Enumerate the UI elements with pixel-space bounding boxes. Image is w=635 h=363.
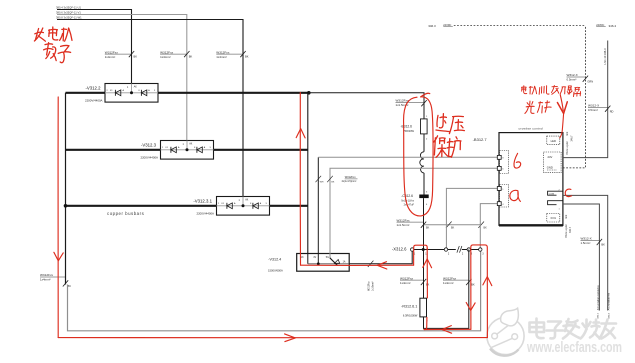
wire red trace bottom [58, 337, 487, 339]
busbar bottom (bus3) [66, 205, 308, 207]
capacitor C312.6 [419, 195, 428, 199]
handwriting baohu (protection) [434, 136, 449, 158]
wire COM tx to resistor monitor right [563, 195, 608, 310]
svg-text:W312-X: W312-X [567, 73, 578, 77]
red arrow up bus drop [296, 129, 305, 138]
node junction terminal 1b [422, 248, 425, 251]
pin group gate/cathode [500, 151, 509, 174]
svg-text:1x4mm²: 1x4mm² [216, 55, 226, 59]
wire red trace V312.4 output [301, 264, 414, 266]
resistor R312.6.1 [420, 298, 427, 317]
resistor B312.6 [421, 119, 428, 134]
svg-text:COM: COM [549, 193, 554, 195]
wire 24VDC dashed bus top [454, 25, 586, 27]
wire gray return left/bottom [68, 251, 481, 330]
svg-text:1x1.5mm²: 1x1.5mm² [397, 223, 410, 227]
red mark b on crowbar [514, 153, 521, 168]
svg-text:fibre optic: fibre optic [564, 224, 568, 238]
svg-text:6.3R/1000W: 6.3R/1000W [403, 314, 418, 318]
connector COM rx [548, 201, 563, 205]
svg-text:copper busbars: copper busbars [107, 211, 145, 216]
svg-text:BK: BK [601, 243, 605, 247]
svg-text:5G: 5G [326, 257, 329, 259]
watermark logo elecfans [487, 308, 524, 355]
svg-text:AK: AK [245, 199, 249, 202]
svg-text:-V312.3: -V312.3 [141, 143, 157, 148]
svg-text:336.4: 336.4 [608, 312, 610, 318]
svg-text:AK: AK [134, 86, 138, 89]
svg-text:W312Fxx: W312Fxx [345, 175, 357, 179]
svg-text:9x(1+1)Vxx: 9x(1+1)Vxx [401, 199, 414, 202]
svg-text:BK: BK [471, 283, 475, 286]
svg-text:W312Fxx: W312Fxx [396, 99, 410, 103]
svg-text:BK: BK [189, 55, 193, 59]
svg-text:BK: BK [134, 55, 138, 59]
wire V312.4 gate 4V up and over to crowbar [317, 157, 319, 253]
svg-text:A/C-crowbar-res: A/C-crowbar-res [607, 292, 610, 310]
wire B312.6 to inductor [423, 134, 425, 152]
busbar DC top (bus1) [66, 92, 309, 94]
svg-text:1500V/600A: 1500V/600A [268, 268, 283, 272]
wire terminal3 up to crowbar pin 4 [480, 204, 497, 250]
diode module V312.3.1 [217, 197, 270, 216]
svg-text:336.1: 336.1 [598, 312, 600, 318]
svg-text:BK: BK [451, 227, 455, 230]
svg-text:-V312.2: -V312.2 [85, 86, 101, 91]
LED indicator [547, 136, 560, 145]
svg-text:RD: RD [610, 109, 614, 113]
red circle around overvoltage branch [404, 93, 434, 216]
wire V312.4 cathode 5G up and over to crowbar [330, 168, 497, 253]
FO1 fibre port [547, 214, 560, 223]
svg-text:-B312.6: -B312.6 [400, 125, 412, 129]
svg-text:-V312.4: -V312.4 [268, 258, 281, 262]
svg-text:2x0.47uF: 2x0.47uF [404, 204, 415, 207]
svg-text:1x4mm²: 1x4mm² [105, 55, 115, 59]
diode module V312.3 [161, 141, 214, 160]
svg-text:2200V/4400A: 2200V/4400A [85, 98, 103, 102]
connector COM tx [548, 191, 563, 195]
wire GND dashed to 24VDC bus [563, 26, 586, 168]
24V/GND supply block [544, 152, 562, 173]
terminal X312.6:1a [411, 248, 414, 251]
node junction bus3 left [64, 204, 68, 208]
node junction bus1 right [307, 91, 311, 95]
handwriting motor-side converter [522, 85, 581, 96]
handwriting guangxian (fibre) [525, 101, 551, 114]
red arrow right bottom [285, 334, 296, 342]
svg-text:2200V/4400A: 2200V/4400A [140, 155, 158, 159]
svg-text:346.7: 346.7 [569, 226, 572, 233]
diode module V312.2 [105, 84, 158, 103]
svg-text:GND: GND [547, 166, 553, 170]
svg-text:WH: WH [320, 181, 324, 183]
svg-text:A/C-crowbar-resistance: A/C-crowbar-resistance [597, 285, 600, 311]
handwriting fadianji (generator) [34, 28, 45, 41]
svg-text:AK: AK [189, 143, 193, 146]
svg-text:2x(1x1.5)mm²: 2x(1x1.5)mm² [342, 180, 357, 183]
red arrow down terminal3 leg [466, 303, 475, 311]
red arrow down left [54, 252, 63, 260]
red mark a on crowbar [510, 190, 521, 201]
svg-text:W312Fxx: W312Fxx [40, 273, 54, 277]
svg-text:-B312.7: -B312.7 [473, 137, 488, 142]
svg-text:BK: BK [426, 227, 430, 230]
wire red trace left side down [57, 97, 59, 338]
wire crowbar trigger return bottom (y=224.7) [424, 224, 481, 226]
red arrow fibre optic [560, 95, 563, 111]
svg-text:W312-X: W312-X [588, 104, 599, 108]
red arrow up right [483, 277, 492, 286]
node phase line labels (generator rotor nets) [56, 6, 82, 20]
svg-text:0.5mm²: 0.5mm² [588, 108, 598, 112]
svg-text:FO1: FO1 [551, 216, 557, 220]
svg-text:346.7: 346.7 [570, 135, 573, 142]
svg-text:1x4mm²: 1x4mm² [40, 278, 50, 282]
svg-text:346.4: 346.4 [609, 24, 617, 28]
inductor L branch [420, 152, 424, 173]
wire branch down through terminal to R312.6.1 [423, 198, 425, 298]
wire red trace bus1 drop [299, 93, 301, 266]
watermark text dianzifashaoyou [530, 319, 617, 339]
wire terminal2 up to crowbar pin 1 [446, 188, 497, 249]
svg-text:1x4mm²: 1x4mm² [400, 281, 410, 285]
svg-text:24V: 24V [548, 155, 553, 159]
terminal X312.6:3a [467, 248, 470, 251]
busbar mid (bus2) [66, 149, 308, 151]
svg-text:fibre optic: fibre optic [565, 141, 569, 155]
svg-text:1A: 1A [343, 261, 346, 264]
wire COM rx down [563, 204, 600, 311]
wire red trace through R column [424, 248, 427, 329]
cable label W312F gate wires [316, 176, 322, 182]
svg-text:4V: 4V [313, 257, 316, 259]
wire bus1 to overvoltage branch B312.6 [309, 93, 424, 119]
svg-text:W312Fxx: W312Fxx [397, 218, 411, 222]
wire inductor to C312.6 [423, 173, 425, 195]
svg-text:-C312.6: -C312.6 [401, 194, 413, 198]
red arrow left under R [442, 326, 452, 334]
wire phase U1 top [57, 10, 132, 84]
svg-text:1.5mm²: 1.5mm² [581, 241, 591, 245]
svg-text:crowbar control: crowbar control [518, 127, 543, 131]
svg-text:-V312.3.1: -V312.3.1 [193, 199, 212, 204]
svg-text:www.elecfans.com: www.elecfans.com [526, 340, 622, 356]
wire red bracket terminals 1 [414, 245, 428, 265]
svg-text:BK: BK [484, 227, 488, 230]
svg-text:-R312.6.1: -R312.6.1 [401, 305, 417, 309]
svg-text:W312Fxx: W312Fxx [443, 276, 457, 280]
crowbar control unit U1 [497, 127, 563, 226]
wire red trace under R312.6.1 [424, 328, 471, 330]
wire bus1 junction down to V312.4 pin 1K [307, 93, 309, 254]
wire R312.6.1 bottom to terminal 3a [424, 250, 469, 329]
svg-text:W312-X: W312-X [581, 237, 592, 241]
terminal X312.6:3b [479, 248, 482, 251]
svg-text:BK: BK [245, 55, 249, 59]
wire left busbar vertical [65, 93, 67, 285]
svg-text:W312Fxx: W312Fxx [160, 50, 174, 54]
svg-text:LSC-10 346.3: LSC-10 346.3 [603, 48, 607, 65]
terminal X312.6:2 [444, 248, 447, 251]
svg-text:W312Fxx: W312Fxx [216, 50, 230, 54]
svg-text:1x16mm²: 1x16mm² [371, 281, 374, 291]
wire phase V1 top [57, 15, 187, 141]
red arrow left V312.4 output [377, 262, 386, 269]
svg-text:346.3: 346.3 [428, 24, 436, 28]
svg-text:W312Fxx: W312Fxx [368, 280, 370, 291]
handwriting guoya (overvoltage) [436, 114, 450, 132]
thyristor V312.4 [297, 254, 350, 272]
wire break symbol [457, 246, 462, 253]
pin group trigger loop [500, 185, 509, 208]
wire red trace right up to terminal 3 [471, 245, 488, 338]
svg-text:1x4mm²: 1x4mm² [160, 55, 170, 59]
svg-text:75R/30W: 75R/30W [403, 129, 414, 133]
svg-text:2200V/4400A: 2200V/4400A [196, 211, 214, 215]
svg-text:-X312.6: -X312.6 [392, 247, 407, 252]
red mark c on fibre [565, 189, 571, 197]
svg-text:W312Fxx: W312Fxx [400, 276, 414, 280]
wire 24V supply to LSC line [563, 41, 608, 158]
wire V312.4 anode out to terminal X312.6:1 [349, 250, 412, 264]
handwriting zhuanzi (rotor) [44, 43, 57, 61]
svg-text:1x4mm²: 1x4mm² [443, 281, 453, 285]
svg-text:1K: 1K [301, 257, 304, 259]
svg-text:W312Fxx: W312Fxx [105, 50, 119, 54]
svg-text:LED: LED [551, 139, 556, 143]
svg-text:0.5mm²: 0.5mm² [567, 78, 577, 82]
red arrow up R column [423, 259, 432, 268]
svg-text:GRN: GRN [587, 79, 593, 83]
wire phase W1 top [57, 20, 243, 197]
